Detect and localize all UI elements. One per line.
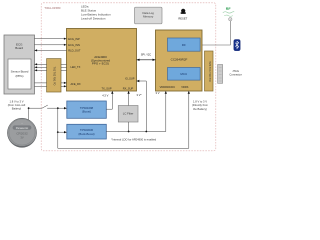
block LC filter (118, 106, 138, 123)
wire RLD_OUT (35, 49, 67, 51)
wires PPG sensor to connector strip (35, 63, 47, 86)
svg-text:(Boost): (Boost) (82, 110, 91, 114)
wire strip to AFE_RX 2 (61, 85, 67, 87)
block ECG board (outer) (4, 35, 35, 94)
wire LC filter to AFE RX_SUP (128, 91, 130, 106)
svg-text:RESET: RESET (178, 16, 187, 20)
node battery rail junction (57, 107, 59, 109)
wire LED drive 2 (35, 66, 47, 68)
wire battery rail down to buck-boost (57, 108, 59, 132)
wire into boost input (64, 107, 67, 109)
svg-text:1.8 V to 3 V: 1.8 V to 3 V (9, 99, 23, 103)
svg-text:TMS TCK TDO TDI: TMS TCK TDO TDI (208, 61, 211, 82)
svg-text:Panasonic: Panasonic (16, 126, 29, 130)
bluetooth logo (234, 40, 240, 51)
antenna ANT1 (200, 18, 232, 46)
block data log memory (135, 7, 163, 24)
node IO_SUP tap (145, 131, 147, 133)
note LEDs list (81, 5, 111, 21)
wire up to CC2640 VDDS (188, 91, 190, 148)
svg-text:LED_TX: LED_TX (71, 65, 81, 69)
wire photodiode signal 1 (35, 82, 47, 84)
wire bottom battery rail (58, 147, 189, 149)
wires connector strip to AFE4900 (61, 64, 67, 87)
svg-text:(Directly from: (Directly from (192, 103, 209, 107)
svg-text:JTAG: JTAG (232, 69, 239, 73)
wire ECG_INN (35, 44, 67, 46)
block TPS61098 boost (67, 101, 107, 118)
svg-text:PPG + ECG): PPG + ECG) (92, 62, 109, 66)
wire strip to AFE_RX 1 (61, 82, 67, 84)
svg-text:1.8 V to 3 V: 1.8 V to 3 V (193, 99, 207, 103)
wire 3V rail buck-boost output (106, 91, 166, 132)
wire photodiode signal 2 (35, 85, 47, 87)
svg-text:TX1 TX2 RX1 PD: TX1 TX2 RX1 PD (53, 67, 56, 86)
svg-text:3 V*: 3 V* (137, 93, 142, 97)
wire LED drive 1 (35, 63, 47, 65)
svg-text:VDDS: VDDS (181, 85, 188, 89)
svg-text:Lead-off Detection: Lead-off Detection (81, 17, 106, 21)
wire strip to AFE LED_TX 2 (61, 66, 67, 68)
sub-block MCU (168, 68, 201, 81)
connector strip sensor flex (47, 59, 61, 92)
svg-text:(from Coin-cell: (from Coin-cell (8, 103, 26, 107)
block TPS63036 buck-boost (67, 124, 107, 139)
wire strip to AFE LED_TX 1 (61, 63, 67, 65)
svg-text:RF: RF (182, 43, 186, 47)
wire IO_SUP branch (137, 81, 147, 132)
svg-text:Connector: Connector (229, 73, 242, 77)
svg-text:RF: RF (226, 7, 232, 11)
svg-text:3V: 3V (20, 136, 23, 140)
svg-text:AFE_RX: AFE_RX (71, 82, 81, 86)
wire battery to switch (28, 105, 64, 119)
battery BT1 coin cell (7, 118, 36, 147)
block AFE4900 U2 (67, 29, 137, 92)
svg-text:ECG_INP: ECG_INP (68, 37, 80, 41)
wire antenna to RF (200, 21, 230, 45)
svg-text:the Battery): the Battery) (193, 107, 207, 111)
reset button S1 (178, 9, 187, 21)
svg-text:3 V: 3 V (156, 91, 160, 95)
connector strip JTAG pins (205, 51, 214, 91)
svg-text:RLD_OUT: RLD_OUT (68, 49, 81, 53)
board boundary TIDA-01580 dashed outline (41, 3, 216, 151)
wire ECG_INP (35, 38, 67, 40)
svg-text:Memory: Memory (143, 15, 154, 19)
wire strip to AFE LED_TX 3 (61, 69, 67, 71)
block sensor board PPG (inner) (8, 59, 31, 89)
wire LC filter down to 3V rail (128, 122, 130, 132)
svg-text:TX_SUP: TX_SUP (101, 87, 111, 91)
wire battery rail to bottom (57, 132, 59, 148)
svg-text:IO_SUP: IO_SUP (125, 77, 135, 81)
svg-text:(Buck-Boost): (Buck-Boost) (78, 132, 94, 136)
svg-text:TIDA-01580: TIDA-01580 (44, 6, 61, 10)
wire SPI/I2C bus AFE to MCU (137, 53, 156, 61)
node buck input junction (57, 131, 59, 133)
wire LED drive 3 (35, 69, 47, 71)
svg-text:Board: Board (15, 46, 23, 50)
switch SW1 (42, 105, 48, 108)
block CC2640R2F U3 (156, 30, 203, 91)
wire boost output 4.3V to AFE TX_SUP (106, 91, 112, 109)
svg-text:VDDR/DCDC: VDDR/DCDC (160, 85, 176, 89)
svg-text:Battery): Battery) (12, 107, 22, 111)
RF radiation marks (green) (223, 7, 234, 16)
svg-text:CC2640R2F: CC2640R2F (171, 58, 188, 62)
sub-block RF (168, 38, 201, 51)
label battery source (8, 99, 26, 110)
svg-text:LC Filter: LC Filter (123, 112, 134, 116)
svg-text:CR2032: CR2032 (16, 132, 28, 136)
svg-text:ECG_INN: ECG_INN (68, 43, 80, 47)
svg-text:*Internal LDO for AFE4900 is e: *Internal LDO for AFE4900 is enabled (111, 137, 156, 141)
block JTAG connector J1 (218, 65, 242, 84)
node LC filter tap (128, 131, 130, 133)
label 1.8V direct battery (192, 99, 209, 110)
svg-text:Sensor Board: Sensor Board (11, 69, 29, 73)
svg-text:(PPG): (PPG) (15, 74, 23, 78)
svg-text:4.3 V: 4.3 V (102, 93, 108, 97)
svg-text:SPI / I2C: SPI / I2C (141, 53, 152, 57)
svg-text:RX_SUP: RX_SUP (123, 87, 134, 91)
svg-text:MCU: MCU (180, 72, 187, 76)
